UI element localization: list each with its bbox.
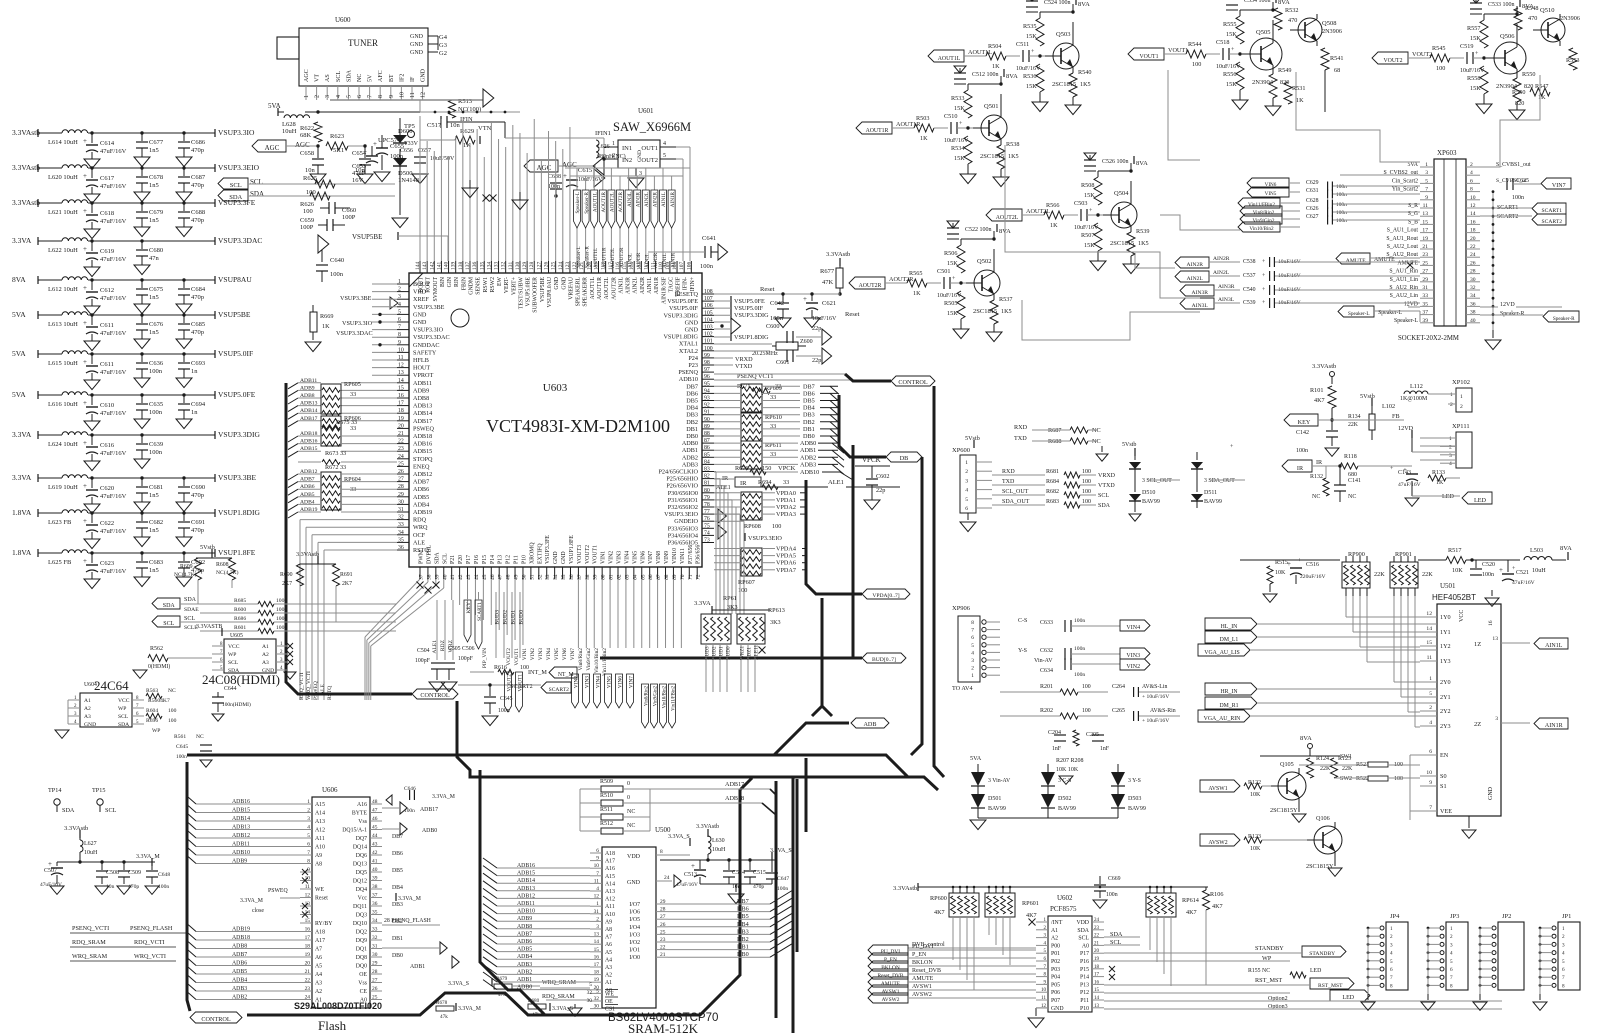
transistor amp Q503 bbox=[928, 50, 964, 62]
svg-text:XP600: XP600 bbox=[952, 447, 970, 454]
svg-text:AIN2R: AIN2R bbox=[653, 252, 659, 268]
svg-text:10uH: 10uH bbox=[1532, 567, 1546, 574]
svg-text:103: 103 bbox=[704, 325, 713, 331]
svg-text:C634: C634 bbox=[1040, 668, 1053, 674]
svg-text:R508: R508 bbox=[1081, 182, 1094, 189]
svg-text:Y-S: Y-S bbox=[1018, 648, 1027, 654]
svg-text:1: 1 bbox=[1449, 436, 1452, 442]
svg-text:8VA: 8VA bbox=[12, 275, 26, 284]
svg-text:GND: GND bbox=[84, 722, 96, 728]
svg-text:100: 100 bbox=[1082, 684, 1091, 690]
svg-text:A8: A8 bbox=[605, 927, 612, 933]
svg-text:ADB7: ADB7 bbox=[517, 931, 532, 937]
svg-text:/INT: /INT bbox=[1051, 920, 1063, 926]
svg-text:R629: R629 bbox=[460, 128, 474, 135]
svg-text:A17: A17 bbox=[315, 938, 325, 944]
svg-text:RP607: RP607 bbox=[738, 579, 755, 586]
svg-text:4: 4 bbox=[1562, 951, 1565, 957]
svg-text:R513: R513 bbox=[458, 98, 472, 105]
svg-text:15: 15 bbox=[1426, 640, 1432, 646]
svg-text:7: 7 bbox=[398, 325, 401, 331]
svg-text:29: 29 bbox=[372, 961, 378, 967]
svg-text:DQ2: DQ2 bbox=[356, 930, 367, 936]
svg-text:L622 10uH: L622 10uH bbox=[48, 247, 78, 254]
svg-text:RDQ_VCTI: RDQ_VCTI bbox=[134, 939, 165, 946]
svg-text:VIN9: VIN9 bbox=[664, 551, 670, 564]
svg-text:28 PSENQ_FLASH: 28 PSENQ_FLASH bbox=[384, 918, 432, 924]
svg-text:3: 3 bbox=[596, 924, 599, 930]
svg-text:13: 13 bbox=[1094, 1004, 1100, 1009]
svg-text:ADB17: ADB17 bbox=[413, 418, 432, 425]
svg-text:R561: R561 bbox=[174, 734, 186, 740]
svg-text:C526 100n: C526 100n bbox=[1102, 159, 1129, 165]
wire ADB10 bbox=[714, 471, 798, 473]
svg-text:VPDA2: VPDA2 bbox=[776, 504, 796, 511]
svg-text:C688: C688 bbox=[191, 209, 205, 216]
svg-text:6: 6 bbox=[1562, 967, 1565, 973]
svg-text:10: 10 bbox=[1041, 988, 1047, 993]
svg-text:VSUP3.3DIG: VSUP3.3DIG bbox=[734, 312, 769, 319]
svg-text:SCL: SCL bbox=[1098, 493, 1109, 499]
svg-text:C521: C521 bbox=[1516, 570, 1529, 576]
svg-text:38: 38 bbox=[426, 574, 432, 580]
svg-text:14: 14 bbox=[594, 939, 600, 945]
svg-text:VIN4: VIN4 bbox=[596, 676, 602, 689]
svg-text:47uF/16V: 47uF/16V bbox=[1512, 580, 1535, 586]
svg-text:R533: R533 bbox=[951, 95, 964, 102]
svg-text:15: 15 bbox=[1094, 988, 1100, 993]
svg-text:1: 1 bbox=[1429, 676, 1432, 682]
svg-text:AIN1L: AIN1L bbox=[661, 192, 667, 207]
bus vertical DB SRAM right bbox=[792, 776, 795, 1033]
svg-text:ADB6: ADB6 bbox=[232, 961, 247, 967]
svg-text:7: 7 bbox=[1425, 187, 1428, 193]
svg-text:DB4: DB4 bbox=[686, 405, 698, 412]
svg-text:Yin_Scart2: Yin_Scart2 bbox=[1392, 187, 1418, 193]
svg-text:RIN: RIN bbox=[454, 276, 460, 287]
transistor amp Q501 bbox=[856, 122, 892, 134]
svg-text:5: 5 bbox=[1562, 959, 1565, 965]
svg-text:AIN2L: AIN2L bbox=[644, 192, 650, 207]
svg-text:A7: A7 bbox=[315, 947, 322, 953]
svg-text:S_CVBS1_out: S_CVBS1_out bbox=[1496, 162, 1531, 168]
svg-text:15: 15 bbox=[305, 918, 311, 924]
svg-text:1: 1 bbox=[596, 901, 599, 907]
svg-text:28: 28 bbox=[1470, 269, 1476, 275]
svg-text:47uF/16V: 47uF/16V bbox=[100, 295, 127, 302]
svg-text:ADB1: ADB1 bbox=[800, 447, 816, 454]
svg-text:AOUT2L: AOUT2L bbox=[996, 215, 1019, 221]
svg-text:35: 35 bbox=[372, 910, 378, 916]
svg-text:VSUP3.3BE: VSUP3.3BE bbox=[340, 295, 372, 302]
svg-text:VOUT2: VOUT2 bbox=[506, 648, 512, 666]
svg-text:8VA: 8VA bbox=[1136, 160, 1148, 167]
svg-text:7: 7 bbox=[596, 871, 599, 877]
svg-text:SCART2: SCART2 bbox=[1542, 219, 1563, 225]
svg-text:12: 12 bbox=[594, 894, 600, 900]
resistor network RP609 bbox=[741, 384, 762, 412]
svg-text:PSWEQ: PSWEQ bbox=[313, 681, 319, 700]
svg-text:ADB7: ADB7 bbox=[300, 477, 315, 483]
svg-text:DQ14: DQ14 bbox=[353, 845, 367, 851]
svg-text:GND: GND bbox=[553, 551, 559, 564]
svg-text:BOUT: BOUT bbox=[419, 277, 425, 293]
wires P2x down bbox=[451, 579, 453, 600]
svg-text:1n5: 1n5 bbox=[149, 492, 159, 499]
svg-text:SVMOUT: SVMOUT bbox=[433, 277, 439, 302]
labels BUD3-BUD0 bbox=[495, 592, 497, 658]
svg-text:53: 53 bbox=[545, 574, 551, 580]
svg-text:3: 3 bbox=[307, 816, 310, 822]
svg-text:56: 56 bbox=[569, 574, 575, 580]
svg-text:100n: 100n bbox=[1482, 572, 1494, 578]
svg-text:A1: A1 bbox=[84, 698, 91, 704]
svg-text:RDZ1: RDZ1 bbox=[747, 647, 753, 660]
svg-text:C693: C693 bbox=[191, 360, 205, 367]
bus CONTROL vertical bbox=[934, 386, 944, 777]
svg-text:15K: 15K bbox=[954, 155, 965, 162]
svg-text:RXD: RXD bbox=[1002, 469, 1015, 475]
svg-text:81: 81 bbox=[704, 481, 710, 487]
svg-text:VSUP5.0IF: VSUP5.0IF bbox=[218, 349, 253, 358]
svg-text:R684: R684 bbox=[1046, 479, 1059, 485]
svg-text:AIN3L: AIN3L bbox=[1192, 303, 1209, 309]
svg-text:100n(HDMI): 100n(HDMI) bbox=[222, 701, 251, 708]
svg-text:21: 21 bbox=[1094, 941, 1100, 946]
svg-text:7: 7 bbox=[1562, 975, 1565, 981]
svg-text:+: + bbox=[1403, 466, 1407, 474]
svg-text:35: 35 bbox=[398, 537, 404, 543]
svg-text:ADB16: ADB16 bbox=[413, 441, 432, 448]
svg-text:VPDA[0..7]: VPDA[0..7] bbox=[872, 593, 899, 599]
bus ADB vertical left bbox=[285, 383, 288, 682]
svg-text:C685: C685 bbox=[191, 321, 205, 328]
svg-text:Vss: Vss bbox=[358, 981, 367, 987]
svg-text:74: 74 bbox=[704, 530, 710, 536]
svg-text:R201: R201 bbox=[1040, 684, 1053, 690]
wires RP900 to mux bbox=[1345, 596, 1347, 617]
svg-text:38: 38 bbox=[372, 884, 378, 890]
svg-text:12: 12 bbox=[398, 363, 404, 369]
svg-text:23: 23 bbox=[660, 937, 666, 943]
svg-text:A8: A8 bbox=[315, 862, 322, 868]
no-connect marks RSW bbox=[483, 195, 490, 202]
flash left ADB wires bbox=[196, 803, 300, 805]
svg-text:68K: 68K bbox=[300, 132, 312, 139]
svg-text:Speaker-R: Speaker-R bbox=[1500, 311, 1524, 317]
svg-text:3.3VAstb: 3.3VAstb bbox=[893, 885, 917, 892]
svg-text:95: 95 bbox=[704, 381, 710, 387]
svg-text:6: 6 bbox=[1390, 967, 1393, 973]
svg-text:PU_DVI: PU_DVI bbox=[881, 949, 900, 955]
svg-text:VTXD: VTXD bbox=[1098, 483, 1115, 489]
svg-text:P13: P13 bbox=[1080, 982, 1089, 988]
svg-text:100n: 100n bbox=[149, 409, 163, 416]
svg-text:R506: R506 bbox=[944, 250, 957, 257]
svg-text:VIN5: VIN5 bbox=[1265, 191, 1277, 197]
svg-text:HFLB: HFLB bbox=[413, 357, 429, 364]
svg-text:123: 123 bbox=[565, 262, 571, 271]
svg-text:22K: 22K bbox=[1374, 571, 1385, 578]
svg-text:ADB12: ADB12 bbox=[300, 469, 318, 475]
svg-text:1: 1 bbox=[398, 279, 401, 285]
svg-text:47uF/16V: 47uF/16V bbox=[100, 218, 127, 225]
svg-text:C503: C503 bbox=[1074, 200, 1087, 207]
svg-text:PWM: PWM bbox=[419, 550, 425, 564]
svg-text:1: 1 bbox=[1562, 926, 1565, 932]
svg-text:24C08(HDMI): 24C08(HDMI) bbox=[202, 672, 280, 687]
svg-text:WP: WP bbox=[228, 652, 236, 658]
svg-text:R155 NC: R155 NC bbox=[1248, 968, 1270, 974]
svg-text:D503: D503 bbox=[1128, 796, 1141, 802]
svg-text:AGC: AGC bbox=[304, 69, 310, 82]
svg-text:VIN3: VIN3 bbox=[1126, 653, 1140, 659]
svg-text:2Y2: 2Y2 bbox=[1440, 708, 1451, 715]
svg-text:21: 21 bbox=[660, 952, 666, 958]
svg-text:7: 7 bbox=[307, 850, 310, 856]
svg-text:8: 8 bbox=[378, 95, 384, 98]
svg-text:D510: D510 bbox=[1142, 490, 1155, 496]
svg-text:AIN2R: AIN2R bbox=[1213, 256, 1230, 262]
svg-text:470p: 470p bbox=[191, 294, 204, 301]
svg-text:R544: R544 bbox=[1188, 41, 1201, 48]
svg-text:RSW1: RSW1 bbox=[483, 277, 489, 293]
svg-text:C681: C681 bbox=[149, 484, 163, 491]
svg-text:BKLON: BKLON bbox=[912, 960, 933, 966]
bus DB collector bbox=[839, 395, 886, 457]
svg-text:P31/656IO1: P31/656IO1 bbox=[668, 497, 698, 504]
svg-text:GND: GND bbox=[421, 68, 427, 82]
svg-text:3: 3 bbox=[398, 294, 401, 300]
svg-text:VSUP3.3EIO: VSUP3.3EIO bbox=[748, 535, 782, 542]
svg-text:11: 11 bbox=[305, 884, 310, 890]
svg-text:15K: 15K bbox=[947, 310, 958, 317]
svg-text:VIN2: VIN2 bbox=[574, 676, 580, 689]
svg-text:10: 10 bbox=[399, 92, 405, 98]
svg-text:100n: 100n bbox=[1074, 646, 1085, 652]
svg-text:VIN11: VIN11 bbox=[680, 548, 686, 564]
svg-text:R522: R522 bbox=[1356, 776, 1369, 782]
svg-text:6: 6 bbox=[971, 635, 974, 641]
testpoint TP5 bbox=[408, 131, 415, 138]
svg-text:100n: 100n bbox=[1296, 448, 1308, 454]
svg-text:79: 79 bbox=[704, 495, 710, 501]
svg-text:100n: 100n bbox=[498, 708, 510, 714]
svg-text:4: 4 bbox=[307, 825, 310, 831]
svg-text:VSUP1.8DIG: VSUP1.8DIG bbox=[734, 334, 769, 341]
svg-text:R134: R134 bbox=[1348, 414, 1361, 420]
resistor network RP610 bbox=[741, 413, 762, 441]
svg-text:VSUP1.8DIG: VSUP1.8DIG bbox=[218, 508, 260, 517]
svg-text:ROUT: ROUT bbox=[426, 277, 432, 293]
svg-text:VIN8: VIN8 bbox=[656, 551, 662, 564]
svg-text:R548: R548 bbox=[1525, 5, 1538, 12]
svg-text:ADB7: ADB7 bbox=[413, 479, 429, 486]
svg-text:3 Y-S: 3 Y-S bbox=[1128, 778, 1141, 784]
svg-text:AIN2L: AIN2L bbox=[1187, 276, 1204, 282]
wires IC bottom left diagonal bbox=[419, 578, 421, 580]
svg-text:31: 31 bbox=[594, 909, 600, 915]
svg-text:9: 9 bbox=[307, 867, 310, 873]
U603 right pins 108-73 bbox=[702, 293, 714, 295]
svg-text:VSUP3.3FE: VSUP3.3FE bbox=[545, 535, 551, 564]
svg-text:R672 33: R672 33 bbox=[325, 464, 346, 471]
svg-text:R691: R691 bbox=[340, 572, 353, 578]
svg-text:50: 50 bbox=[521, 574, 527, 580]
svg-text:100n: 100n bbox=[149, 449, 163, 456]
svg-text:P04: P04 bbox=[1051, 975, 1060, 981]
svg-text:Q510: Q510 bbox=[1540, 7, 1554, 14]
svg-text:DB1: DB1 bbox=[803, 426, 815, 433]
svg-text:1n5: 1n5 bbox=[149, 329, 159, 336]
svg-text:1n: 1n bbox=[191, 368, 198, 375]
svg-text:100: 100 bbox=[168, 708, 177, 714]
svg-text:CONTROL: CONTROL bbox=[420, 692, 449, 699]
svg-text:19: 19 bbox=[1094, 957, 1100, 962]
svg-text:R556: R556 bbox=[1223, 71, 1236, 78]
svg-text:XP102: XP102 bbox=[1452, 379, 1470, 386]
svg-text:C679: C679 bbox=[149, 209, 163, 216]
svg-text:27: 27 bbox=[398, 477, 404, 483]
svg-text:51: 51 bbox=[529, 574, 535, 580]
svg-text:16: 16 bbox=[398, 393, 404, 399]
svg-text:C612: C612 bbox=[100, 287, 114, 294]
svg-text:2N3906: 2N3906 bbox=[1322, 28, 1342, 35]
flag SCL bottom bbox=[152, 616, 180, 627]
transistor Q105 bbox=[1278, 772, 1306, 800]
svg-text:SDAE: SDAE bbox=[184, 607, 199, 613]
svg-text:Speaker-R: Speaker-R bbox=[584, 246, 590, 268]
svg-text:132: 132 bbox=[501, 262, 507, 271]
svg-text:5VA: 5VA bbox=[12, 310, 26, 319]
svg-text:30: 30 bbox=[594, 1004, 600, 1010]
svg-text:AIN1R/SIF: AIN1R/SIF bbox=[661, 276, 667, 304]
svg-text:98: 98 bbox=[704, 360, 710, 366]
svg-text:+: + bbox=[83, 439, 87, 447]
svg-text:AOUT2L: AOUT2L bbox=[610, 192, 616, 212]
svg-text:R673 33: R673 33 bbox=[325, 450, 346, 457]
svg-text:R540: R540 bbox=[1078, 69, 1091, 76]
resistor network RP605 bbox=[321, 384, 341, 414]
svg-text:2SC1815Y: 2SC1815Y bbox=[1306, 863, 1334, 870]
svg-text:Q508: Q508 bbox=[1322, 20, 1336, 27]
svg-text:R558: R558 bbox=[1467, 75, 1480, 82]
svg-text:I/O3: I/O3 bbox=[629, 932, 640, 938]
svg-text:VEE: VEE bbox=[1440, 808, 1452, 815]
flag AMUTE bbox=[1336, 253, 1370, 264]
svg-text:D501: D501 bbox=[988, 796, 1001, 802]
svg-text:23: 23 bbox=[1422, 252, 1428, 258]
transistor amp Q506 Q510 bbox=[1372, 52, 1408, 64]
svg-text:ADB16: ADB16 bbox=[517, 863, 535, 869]
svg-text:NC(4.7K): NC(4.7K) bbox=[216, 569, 239, 576]
svg-text:VPROT: VPROT bbox=[413, 372, 434, 379]
svg-text:16: 16 bbox=[1094, 980, 1100, 985]
wires IC left pins 1-13 bbox=[372, 283, 397, 285]
svg-text:1: 1 bbox=[307, 799, 310, 805]
svg-text:SPEAKERR: SPEAKERR bbox=[583, 277, 589, 307]
flag AGC bbox=[252, 140, 286, 152]
svg-text:RP605: RP605 bbox=[344, 381, 361, 388]
svg-text:P15: P15 bbox=[482, 555, 488, 564]
bus ADB main horizontal bbox=[187, 723, 849, 755]
svg-text:1Y3: 1Y3 bbox=[1440, 658, 1451, 665]
svg-text:ADB11: ADB11 bbox=[232, 842, 250, 848]
svg-text:ALE: ALE bbox=[413, 539, 425, 546]
svg-text:+: + bbox=[1262, 287, 1265, 293]
svg-text:C629: C629 bbox=[1306, 180, 1319, 186]
svg-text:34: 34 bbox=[398, 530, 404, 536]
svg-text:100n: 100n bbox=[1336, 192, 1347, 198]
bus frame flash bbox=[187, 762, 190, 1011]
svg-text:94: 94 bbox=[704, 388, 710, 394]
svg-text:10K: 10K bbox=[1250, 792, 1261, 798]
svg-text:108: 108 bbox=[704, 289, 713, 295]
svg-text:45: 45 bbox=[372, 825, 378, 831]
svg-text:DB6: DB6 bbox=[686, 390, 698, 397]
svg-text:2Y0: 2Y0 bbox=[1440, 679, 1451, 686]
offpage arrow IF out bbox=[330, 99, 483, 101]
svg-text:47k: 47k bbox=[440, 1014, 448, 1020]
svg-text:C141: C141 bbox=[1348, 478, 1361, 484]
svg-text:100: 100 bbox=[1394, 776, 1403, 782]
svg-text:VSUP3.3BE: VSUP3.3BE bbox=[413, 304, 445, 311]
svg-text:1n: 1n bbox=[191, 409, 198, 416]
svg-text:10: 10 bbox=[1470, 195, 1476, 201]
svg-text:R609: R609 bbox=[180, 564, 193, 570]
svg-text:TUNER: TUNER bbox=[348, 38, 378, 48]
svg-text:ADB: ADB bbox=[863, 721, 876, 728]
svg-text:2N3906: 2N3906 bbox=[1560, 15, 1580, 22]
flag SCART1 vertical bbox=[475, 600, 482, 649]
svg-text:RP608: RP608 bbox=[744, 523, 761, 530]
svg-text:4K7: 4K7 bbox=[934, 909, 945, 916]
svg-text:C-S: C-S bbox=[1018, 618, 1027, 624]
svg-text:VSUP5.0IF: VSUP5.0IF bbox=[669, 305, 699, 312]
svg-text:VOUT3: VOUT3 bbox=[577, 545, 583, 564]
svg-text:ADB0: ADB0 bbox=[800, 440, 816, 447]
svg-text:EXTIFQ: EXTIFQ bbox=[537, 543, 543, 564]
svg-text:A2: A2 bbox=[605, 973, 612, 979]
svg-text:+: + bbox=[83, 399, 87, 407]
svg-text:ADB16: ADB16 bbox=[300, 439, 318, 445]
svg-text:129: 129 bbox=[522, 262, 528, 271]
bus CONTROL right bbox=[714, 373, 845, 375]
svg-text:SCL: SCL bbox=[336, 71, 342, 82]
svg-text:1: 1 bbox=[1450, 926, 1453, 932]
svg-text:C600: C600 bbox=[766, 323, 779, 330]
svg-text:AIN2L: AIN2L bbox=[633, 277, 639, 294]
svg-text:47: 47 bbox=[498, 574, 504, 580]
svg-text:28: 28 bbox=[372, 969, 378, 975]
svg-text:L619 10uH: L619 10uH bbox=[48, 484, 78, 491]
svg-text:ADB5: ADB5 bbox=[300, 492, 315, 498]
svg-text:BAV99: BAV99 bbox=[988, 806, 1006, 812]
svg-text:17: 17 bbox=[594, 962, 600, 968]
capacitor C646 bbox=[386, 795, 392, 805]
svg-text:141: 141 bbox=[436, 262, 442, 271]
svg-text:P34/656IO4: P34/656IO4 bbox=[668, 532, 698, 539]
svg-text:2: 2 bbox=[1429, 705, 1432, 711]
svg-text:AIN1R: AIN1R bbox=[670, 252, 676, 268]
svg-text:GND: GND bbox=[554, 277, 560, 290]
svg-text:C669: C669 bbox=[1108, 876, 1121, 882]
svg-text:17: 17 bbox=[1094, 973, 1100, 978]
svg-text:DB3: DB3 bbox=[737, 928, 749, 935]
svg-text:47k: 47k bbox=[532, 1012, 540, 1018]
svg-text:470: 470 bbox=[1288, 17, 1297, 24]
bus vertical ADB1718 bbox=[775, 781, 778, 1018]
